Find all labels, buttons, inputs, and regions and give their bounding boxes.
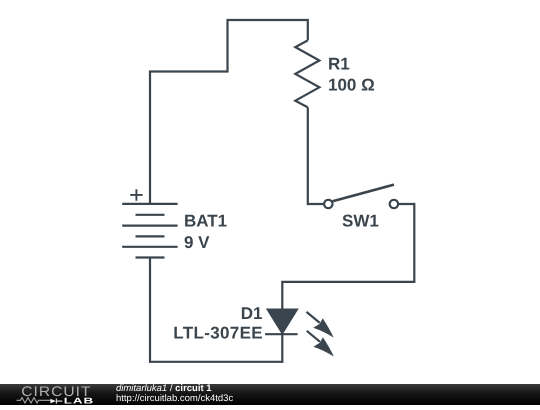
wire: resistor bottom to switch pole bbox=[308, 107, 324, 204]
svg-text:LTL-307EE: LTL-307EE bbox=[173, 324, 263, 343]
footer attribution text bbox=[116, 383, 233, 404]
svg-text:SW1: SW1 bbox=[342, 212, 379, 231]
resistor R1 bbox=[295, 40, 319, 107]
svg-text:R1: R1 bbox=[328, 55, 350, 74]
svg-text:100 Ω: 100 Ω bbox=[328, 75, 375, 94]
wire: battery + up and over to resistor top bbox=[150, 20, 308, 204]
wire: switch throw down and across to LED anode bbox=[282, 204, 414, 310]
battery BAT1 bbox=[122, 204, 177, 258]
CircuitLab logo bbox=[0, 384, 110, 405]
LED D1 bbox=[265, 310, 334, 357]
footer bar bbox=[0, 384, 540, 405]
svg-text:LAB: LAB bbox=[64, 396, 94, 406]
wire: LED cathode down and back to battery - bbox=[150, 258, 282, 362]
svg-text:D1: D1 bbox=[241, 304, 263, 323]
svg-text:BAT1: BAT1 bbox=[184, 211, 227, 230]
switch SW1 bbox=[324, 185, 398, 209]
svg-text:9 V: 9 V bbox=[184, 233, 210, 252]
battery + polarity mark bbox=[130, 189, 142, 201]
